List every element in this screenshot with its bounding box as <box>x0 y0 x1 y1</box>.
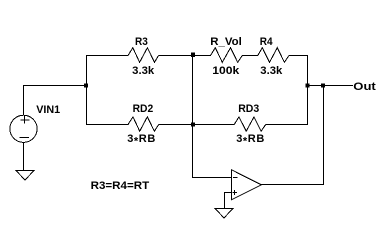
op-amp U1 <box>232 170 262 200</box>
resistor R_Vol <box>211 48 243 63</box>
svg-text:RD2: RD2 <box>133 103 154 115</box>
svg-text:3.3k: 3.3k <box>132 65 155 77</box>
resistor R4 <box>258 48 289 63</box>
voltage source VIN1 <box>10 115 37 142</box>
svg-text:R3: R3 <box>135 36 148 48</box>
wire R4 right lead <box>289 55 308 57</box>
wire RD3 right lead <box>266 124 309 126</box>
wire top row left lead <box>86 55 129 57</box>
wire op-amp noninverting input <box>224 192 232 194</box>
wire op-amp output horizontal <box>261 184 324 186</box>
wire center bus vertical <box>192 55 194 178</box>
svg-text:Out: Out <box>353 81 376 93</box>
wire RD2 left lead <box>86 124 129 126</box>
resistor R3 <box>128 48 159 63</box>
svg-text:100k: 100k <box>212 65 240 77</box>
svg-text:RD3: RD3 <box>238 103 259 115</box>
wire left bus vertical <box>86 55 88 125</box>
svg-text:3.3k: 3.3k <box>260 65 283 77</box>
wire noninverting drop <box>224 192 226 209</box>
node E junction dot <box>321 84 325 88</box>
node C junction dot <box>191 123 195 127</box>
resistor RD2 <box>128 117 159 131</box>
node B junction dot <box>191 53 195 57</box>
wire R3 to node B <box>159 55 194 57</box>
wire output riser <box>323 85 325 185</box>
node A junction dot <box>84 84 88 88</box>
wire VIN1 top to node A <box>23 85 87 87</box>
wire RD2 to node C <box>159 124 194 126</box>
wire R_Vol to R4 <box>242 55 258 57</box>
svg-text:R3=R4=RT: R3=R4=RT <box>91 180 150 192</box>
wire to Out <box>307 85 353 87</box>
resistor RD3 <box>234 117 266 131</box>
wire right bus 1 vertical <box>307 55 309 125</box>
svg-text:R_Vol: R_Vol <box>210 36 242 48</box>
node D junction dot <box>305 84 309 88</box>
wire to op-amp inverting input <box>192 177 232 179</box>
wire node C to RD3 <box>192 124 235 126</box>
svg-text:R4: R4 <box>260 36 274 48</box>
ground below VIN1 <box>16 171 34 180</box>
wire VIN1 bottom vertical <box>23 142 25 170</box>
wire VIN1 top vertical <box>23 85 25 116</box>
ground below op-amp <box>215 209 233 218</box>
svg-text:VIN1: VIN1 <box>36 104 60 116</box>
wire node B to R_Vol <box>192 55 211 57</box>
